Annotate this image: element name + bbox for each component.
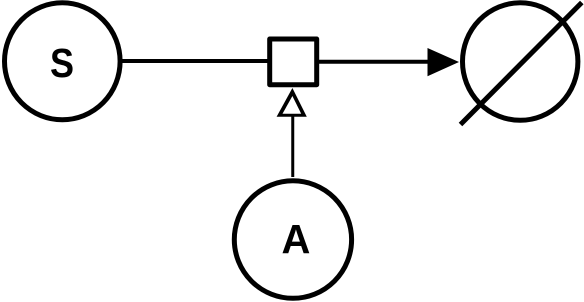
- svg-text:A: A: [282, 216, 311, 263]
- svg-text:S: S: [50, 41, 74, 87]
